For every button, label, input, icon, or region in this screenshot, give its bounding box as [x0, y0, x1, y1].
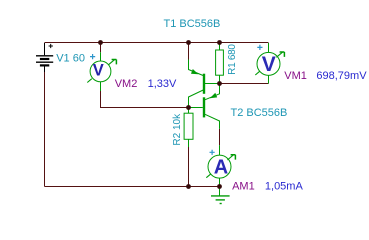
svg-text:T1 BC556B: T1 BC556B [164, 18, 221, 30]
svg-text:AM1: AM1 [232, 180, 255, 192]
svg-text:698,79mV: 698,79mV [316, 70, 367, 82]
svg-text:V: V [262, 53, 276, 76]
svg-text:1,33V: 1,33V [148, 78, 177, 90]
svg-text:V1 60: V1 60 [56, 52, 85, 64]
svg-text:V: V [93, 61, 104, 79]
svg-text:R1 680: R1 680 [227, 44, 238, 75]
svg-text:T2 BC556B: T2 BC556B [231, 107, 288, 119]
svg-text:VM2: VM2 [115, 78, 138, 90]
svg-text:R2 10k: R2 10k [172, 113, 183, 146]
svg-text:1,05mA: 1,05mA [265, 180, 304, 192]
svg-text:A: A [214, 157, 228, 179]
svg-text:VM1: VM1 [284, 70, 307, 82]
